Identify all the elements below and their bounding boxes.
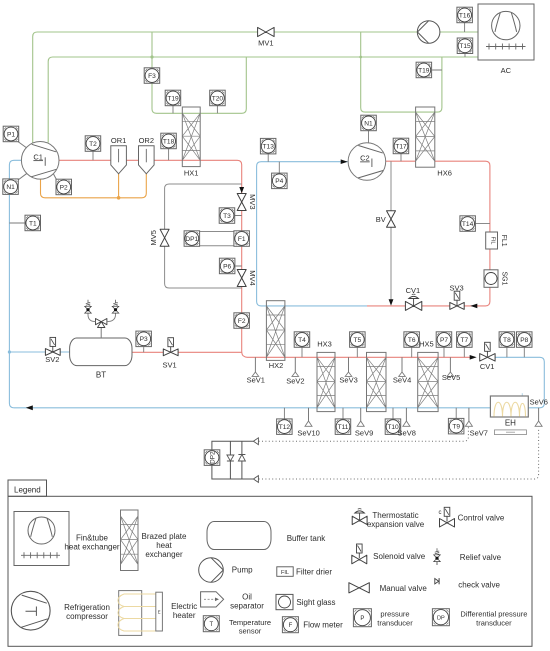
svg-text:Thermostatic: Thermostatic [372,511,418,520]
svg-text:T7: T7 [460,337,468,344]
svg-text:Differential pressure: Differential pressure [460,610,527,619]
legend refrigeration compressor symbol [11,591,50,630]
sensor T6 at 411.7,339.5 [404,332,420,348]
legend buffer tank symbol [207,522,271,550]
sensor F3 at 152,75.6 [144,68,160,84]
service valves SeV6-SeV10 stubs [538,408,540,421]
relief valve RV2 [113,300,117,307]
svg-text:heat exchanger: heat exchanger [64,543,119,552]
arrow down end of BV line [389,299,394,305]
svg-text:F2: F2 [238,318,246,325]
svg-text:P4: P4 [275,178,283,185]
sensor T10 at 393,426.6 [385,419,401,435]
sensor T18 at 168.6,141 [161,133,177,149]
sensor F2 at 241.7,320.5 [234,313,250,329]
wire blue suction C1 left riser [9,160,21,407]
relief valve RV1 [86,300,90,307]
svg-text:Pump: Pump [232,566,253,575]
svg-text:SeV10: SeV10 [297,429,320,438]
three-way valve on BT [96,319,107,328]
sensor T19 at 423.8,70 [416,62,432,77]
sensor T13 at 268.2,146.2 [260,138,276,154]
oil separator OR1 [111,146,127,174]
air cooler fan [492,11,520,39]
sensor P4 at 279.3,180.8 [272,173,288,189]
svg-text:F3: F3 [148,73,156,80]
svg-text:transducer: transducer [377,619,413,628]
service valve SeV10 triangle [305,421,312,426]
service valve SeV2 triangle [292,372,299,376]
svg-text:T3: T3 [223,213,231,220]
svg-text:DP1: DP1 [185,236,198,243]
wire curved pipe to relief valve right [107,313,116,322]
svg-text:separator: separator [230,602,264,611]
solenoid valve SV1 [163,349,178,356]
svg-text:P6: P6 [223,263,231,270]
svg-text:CV1: CV1 [406,286,421,295]
sensor T7 at 464.3,339.5 [457,332,473,348]
buffer tank top stem [100,325,102,338]
svg-text:P3: P3 [140,336,148,343]
sensor T16 at 464.6,15 [457,7,473,23]
svg-text:FL1: FL1 [500,235,507,247]
sensor DP2 [204,450,220,466]
legend brazed plate heat exchanger symbol [121,510,139,571]
wire red BT to junction [132,351,242,353]
svg-text:E: E [158,610,161,615]
svg-text:SG1: SG1 [501,271,508,285]
sight glass SG1 [484,270,498,288]
svg-text:T15: T15 [459,43,471,50]
service valve SeV9 triangle [357,421,364,426]
svg-text:BV: BV [376,215,386,224]
wire gray DP1 sense lines across F1 [200,232,234,246]
legend differential pressure transducer symbol [432,609,449,626]
svg-text:check valve: check valve [458,580,500,589]
svg-text:SeV3: SeV3 [339,376,357,385]
legend box [8,496,532,646]
svg-text:T8: T8 [503,337,511,344]
valve BV [387,211,396,227]
wire diagonal connector P1 to C1 [17,141,28,149]
wire green discharge line C1 to AC top [33,32,478,143]
svg-text:MV4: MV4 [248,270,257,285]
legend temperature sensor symbol [203,616,219,632]
legend relief valve symbol [435,548,439,555]
svg-text:F: F [289,623,293,629]
valve MV3 [237,194,246,211]
valve MV4 [237,270,246,287]
sensor T12 at 284.4,426.6 [277,419,293,435]
svg-text:Manual valve: Manual valve [380,584,428,593]
sensor T9 at 456.2,426.1 [448,418,464,434]
svg-text:Relief valve: Relief valve [460,553,502,562]
svg-text:F1: F1 [238,236,246,243]
svg-text:SV1: SV1 [163,361,177,370]
svg-text:T16: T16 [459,12,471,19]
svg-text:DP: DP [437,616,445,622]
heat exchanger HX1 [182,107,200,167]
diode D2 [238,441,245,479]
legend tab [8,480,47,496]
valve MV5 [160,229,169,246]
filter drier FL1 [486,232,498,249]
sensor T3 at 227,215.5 [219,208,235,224]
wire diagonal connector N1 to C1 [16,173,27,181]
wire dotted signal SeV7 to DP2 [259,427,469,441]
legend electric heater symbol [119,591,142,636]
service valve SeV7 triangle [465,421,472,426]
legend pressure transducer symbol [353,609,371,627]
svg-text:compressor: compressor [66,612,108,621]
node green junction at F3 branch [150,55,153,58]
wire red C2 discharge to HX6 [386,160,416,162]
legend thermostatic expansion valve symbol [352,516,367,524]
svg-text:MV3: MV3 [248,194,257,209]
wire blue branch to SV2 and BT [9,351,69,353]
svg-text:T9: T9 [452,424,460,431]
legend oil separator symbol [201,592,224,607]
svg-text:FIL: FIL [490,237,496,245]
sensor T20 at 217.4,98 [210,90,226,106]
svg-text:SV2: SV2 [45,355,59,364]
svg-text:T5: T5 [353,337,361,344]
svg-text:T19: T19 [418,67,430,74]
svg-text:Oil: Oil [242,593,252,602]
svg-text:T14: T14 [462,221,474,228]
node blue junction at SV2 branch [8,350,11,353]
air cooler AC box [478,4,534,60]
svg-text:BT: BT [96,371,106,380]
svg-text:N1: N1 [364,120,373,127]
svg-text:transducer: transducer [476,619,512,628]
svg-text:Fin&tube: Fin&tube [76,534,109,543]
svg-text:OR1: OR1 [111,136,126,145]
wire dotted signal SeV6 to DP2 [259,428,539,479]
svg-text:P1: P1 [7,131,15,138]
svg-text:SeV9: SeV9 [355,429,373,438]
svg-text:DP2: DP2 [209,451,216,464]
svg-text:exchanger: exchanger [145,550,183,559]
svg-text:pressure: pressure [380,610,409,619]
svg-text:Electric: Electric [171,602,197,611]
sensor T14 at 467.6,223.6 [460,216,476,232]
wire gray BV bypass line [390,161,392,299]
legend control valve symbol [440,519,455,528]
service valve SeV8 triangle [403,421,410,426]
svg-text:T11: T11 [338,424,349,431]
svg-text:AC: AC [501,66,512,75]
node green junction at HX6 loop [359,56,362,59]
svg-text:HX5: HX5 [419,339,434,348]
svg-text:P7: P7 [440,337,448,344]
heat exchanger HX3 [317,352,335,411]
legend filter drier symbol [277,567,293,577]
wire green HX6 water loop [361,32,442,112]
sensor P8 at 524.3,339.5 [517,332,533,348]
oil separator OR2 [139,146,155,174]
sensor N1 at 10.6,186.7 [3,179,18,195]
svg-text:T1: T1 [29,220,37,227]
arrow left on bottom return [26,405,33,410]
svg-text:sensor: sensor [239,627,262,636]
svg-text:T13: T13 [263,144,275,151]
wire sensor stubs group [9,23,524,419]
svg-text:SeV7: SeV7 [470,429,488,438]
wire red discharge C1 to expansion string [59,160,471,357]
svg-text:T6: T6 [408,337,416,344]
sensor P6 at 227.2,266 [219,258,235,274]
svg-text:heater: heater [173,611,196,620]
sensor T19 at 173,98 [165,90,181,106]
sensor N1 at 368.5,122.9 [361,115,377,131]
svg-text:T2: T2 [89,141,97,148]
svg-text:Brazed plate: Brazed plate [142,532,187,541]
svg-text:Control valve: Control valve [458,514,505,523]
svg-text:EH: EH [505,419,516,428]
svg-text:HX1: HX1 [184,169,199,178]
svg-text:T17: T17 [395,143,407,150]
sensor T11 at 343,426.6 [335,419,351,435]
wire light blue stub above EH [521,393,523,398]
service valve SeV6 triangle [535,421,542,426]
svg-text:P: P [360,616,364,622]
svg-text:MV5: MV5 [149,230,158,245]
electric heater EH [490,396,528,417]
legend check valve symbol [435,579,439,584]
legend flow meter symbol [282,617,298,633]
svg-text:heat: heat [156,541,172,550]
svg-text:OR2: OR2 [139,136,154,145]
connector triangle upper [253,438,258,445]
svg-text:HX6: HX6 [437,169,452,178]
sensor P1 at 11,134 [3,126,19,142]
wire blue HX2 to C2 suction [257,162,367,306]
svg-text:T12: T12 [279,424,291,431]
sensor T17 at 401,146 [393,138,409,154]
legend solenoid valve symbol [352,555,367,564]
svg-text:SeV2: SeV2 [286,376,304,385]
solenoid valve SV2 [45,349,60,356]
svg-text:c: c [439,510,442,516]
arrow right into CV1 [470,355,477,360]
legend pump symbol [199,558,224,583]
svg-text:SeV5: SeV5 [442,373,460,382]
legend sight glass symbol [276,594,293,609]
svg-text:T4: T4 [298,337,306,344]
wire red liquid line SG1 to expansion valves [367,161,490,306]
heat exchanger HX2 [266,301,285,361]
connector triangle lower [253,476,258,483]
wire curved pipe to relief valve left [88,313,96,322]
svg-text:Sight glass: Sight glass [296,598,335,607]
control valve CV1 main [405,301,421,310]
valve MV1 [258,27,275,36]
wire DP2 sense leads [212,441,253,479]
sensor T4 at 302,339.5 [294,332,310,348]
wire green return line C1 to AC bottom [48,57,478,143]
sensor T5 at 357.3,339.5 [350,332,366,348]
svg-text:T: T [209,622,213,628]
arrow right into C2 [341,159,348,164]
svg-text:HX2: HX2 [269,361,284,370]
pump on green line [417,21,440,44]
wire blue after CV1 down to EH [496,357,545,408]
svg-text:expansion valve: expansion valve [367,520,425,529]
wire orange oil return from OR1 OR2 to C1 [41,174,147,198]
buffer tank BT [70,338,132,366]
service valves SeV1-SeV5 stubs [254,357,256,372]
svg-text:C2: C2 [360,154,370,163]
svg-text:SV3: SV3 [450,284,464,293]
wire blue bottom return line [14,407,491,409]
compressor C1 [21,142,59,180]
svg-text:Filter drier: Filter drier [296,568,332,577]
svg-text:Solenoid valve: Solenoid valve [373,552,426,561]
svg-text:SeV8: SeV8 [398,429,416,438]
node orange junction below OR1 [117,196,121,200]
legend fin and tube heat exchanger symbol [14,512,69,566]
svg-text:SeV4: SeV4 [393,376,411,385]
svg-text:MV1: MV1 [258,39,273,48]
heat exchanger HX4 [367,352,387,411]
heat exchanger HX6 [416,107,435,167]
heat exchanger HX5 [418,352,438,411]
compressor C2 [348,143,386,181]
wire diagonal connector P2 to C1 [53,174,57,182]
sensor T15 at 465,45.8 [457,38,473,54]
service valve SeV1 triangle [252,372,259,376]
svg-text:Legend: Legend [14,485,41,494]
diode D1 [227,441,234,479]
svg-text:CV1: CV1 [480,362,495,371]
svg-text:HX3: HX3 [317,339,332,348]
svg-text:Buffer tank: Buffer tank [287,534,327,543]
legend manual valve symbol [349,583,369,593]
sensor DP1 at 191.8,238.5 [184,231,200,247]
sensor T8 at 506.9,339.5 [499,332,514,348]
svg-text:T20: T20 [212,95,224,102]
svg-text:C1: C1 [33,152,43,161]
sensor T2 at 93,143.5 [85,136,101,152]
arrow down into MV3 [239,187,244,193]
service valve SeV4 triangle [399,372,406,376]
svg-text:Refrigeration: Refrigeration [64,603,110,612]
wire gray MV5 bypass line [165,184,242,288]
wire green F3 branch and HX1 water loop [152,32,246,113]
sensor F1 at 241.7,238.5 [234,231,250,247]
air cooler coil [486,46,526,48]
svg-text:SeV1: SeV1 [247,376,265,385]
sensor T1 at 32.8,223 [25,215,41,231]
sensor P3 at 143.7,338.8 [136,331,152,347]
svg-text:P8: P8 [520,337,528,344]
sensor P7 at 444,339.5 [436,332,452,348]
svg-text:T18: T18 [163,138,175,145]
svg-text:FIL: FIL [281,570,289,576]
svg-text:N1: N1 [6,184,15,191]
arrow left into SV3 [470,304,477,309]
EH nameplate [495,430,527,435]
svg-text:SeV6: SeV6 [530,397,548,406]
sensor P2 at 63.7,187 [56,179,72,195]
svg-text:Flow meter: Flow meter [303,621,343,630]
svg-text:T19: T19 [167,95,179,102]
solenoid valve SV3 [450,302,464,309]
service valve SeV3 triangle [345,372,352,376]
control valve CV1 load side [480,354,495,362]
service valve SeV5 triangle [447,372,454,376]
svg-text:P2: P2 [60,184,68,191]
